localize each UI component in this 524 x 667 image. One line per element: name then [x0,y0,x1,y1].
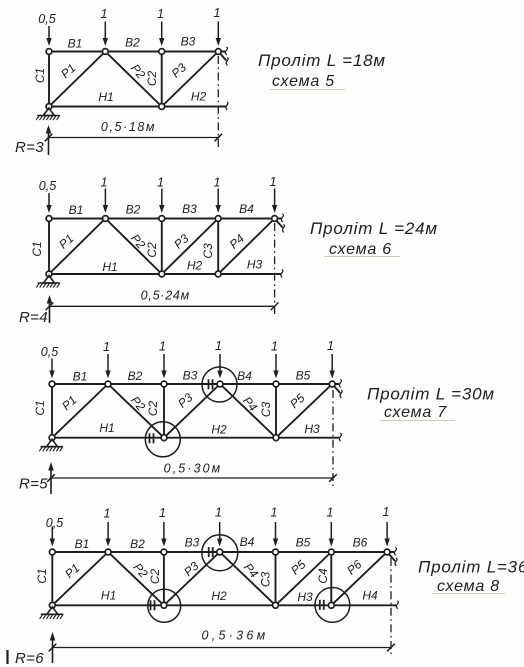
vertical member С4 truss 8 [330,552,332,605]
node truss 5 [215,49,221,55]
added-node circle truss 8 [315,588,350,623]
diagonal member Р4 truss 8 [220,552,276,605]
svg-text:С2: С2 [145,71,159,87]
double tick mark truss 8 [208,547,210,557]
vertical member С2 truss 5 [161,52,163,107]
load arrow at x=218.3 [217,22,219,41]
svg-text:Проліт L =30м: Проліт L =30м [367,385,495,404]
diagonal member Р2 truss 7 [108,384,164,438]
svg-text:В5: В5 [296,536,311,550]
svg-text:1: 1 [103,340,110,354]
svg-text:С1: С1 [33,400,47,415]
top chord line truss 5 [49,51,225,53]
bottom chord line truss 8 [52,604,396,606]
load arrow at x=219.7 [219,522,221,541]
svg-text:Н2: Н2 [211,423,227,437]
svg-text:Н2: Н2 [191,90,207,104]
svg-text:Проліт L =18м: Проліт L =18м [258,51,386,70]
symmetry axis line truss 7 [332,390,334,486]
vertical member С2 truss 7 [163,384,165,438]
load arrow at x=108 [107,354,109,373]
support A truss 5 [43,108,54,116]
svg-text:С3: С3 [259,402,273,418]
load arrow at x=387.1 [386,522,388,541]
diagonal stub at symmetry axis truss 8 [387,552,395,561]
svg-text:1: 1 [101,176,108,190]
vertical member С3 truss 6 [217,219,219,275]
diagonal member Р2 truss 6 [105,219,161,275]
svg-text:1: 1 [271,340,278,354]
top chord line truss 6 [49,218,281,220]
node truss 8 [328,549,334,555]
svg-text:Н1: Н1 [101,589,116,603]
node truss 8 [161,549,167,555]
vertical member С1 truss 7 [51,384,53,438]
symmetry axis line truss 6 [274,223,276,317]
double tick mark truss 8 [150,600,152,610]
svg-text:1: 1 [327,339,334,353]
svg-text:Н3: Н3 [304,422,320,436]
reaction arrow R truss 7 [50,467,52,494]
load arrow at x=161.7 [161,22,163,41]
svg-text:0,5·36м: 0,5·36м [201,629,268,643]
vertical member С2 truss 8 [163,552,165,605]
dimension line truss 5 [49,137,219,139]
load arrow at x=276 [275,354,277,373]
added-node circle truss 7 [202,367,237,402]
node truss 8 [161,602,167,608]
svg-text:схема 8: схема 8 [437,578,500,595]
node truss 6 [215,271,221,277]
svg-text:В6: В6 [353,536,368,550]
svg-text:1: 1 [270,175,277,189]
svg-text:схема 6: схема 6 [329,241,392,258]
svg-text:В3: В3 [181,35,196,49]
svg-text:С4: С4 [316,568,330,584]
added-node circle truss 8 [202,535,238,571]
svg-text:В2: В2 [130,537,145,551]
svg-text:1: 1 [159,340,166,354]
svg-text:С1: С1 [35,568,49,583]
svg-text:0,5·24м: 0,5·24м [141,289,190,303]
vertical member С1 truss 6 [48,219,50,275]
node truss 8 [273,602,279,608]
svg-text:1: 1 [215,339,222,353]
diagonal member Р2 truss 5 [105,52,161,107]
diagonal member Р5 truss 7 [276,384,332,438]
cut mark bottom-right truss 5 [225,102,229,110]
svg-text:0,5: 0,5 [46,516,63,530]
svg-text:1: 1 [101,7,108,21]
svg-text:0,5: 0,5 [39,179,56,193]
svg-text:В2: В2 [128,369,143,383]
support A truss 7 [47,439,58,447]
svg-text:В3: В3 [185,536,200,550]
node truss 6 [46,271,52,277]
symmetry axis line truss 5 [217,56,219,148]
node truss 7 [273,381,279,387]
top chord line truss 7 [52,383,339,385]
svg-text:R=4: R=4 [19,309,48,326]
svg-text:1: 1 [327,506,334,520]
diagonal member Р1 truss 7 [52,384,108,438]
svg-text:0,5: 0,5 [41,345,58,359]
load arrow at x=52.3 [51,527,53,541]
svg-text:С2: С2 [146,401,160,417]
load arrow at x=163.9 [163,522,165,541]
cut mark bottom-right truss 7 [338,433,342,441]
svg-text:В4: В4 [240,535,255,549]
load arrow at x=105.3 [104,22,106,41]
node truss 7 [273,435,279,441]
stray mark near R=6 [6,650,8,664]
double tick mark truss 8 [319,600,321,610]
diagonal member Р3 truss 6 [162,219,218,275]
node truss 8 [105,549,111,555]
svg-text:В1: В1 [75,537,90,551]
vertical member С2 truss 6 [161,219,163,275]
guideline under schema 8 [432,593,505,595]
node truss 7 [161,381,167,387]
svg-text:Н3: Н3 [297,590,313,604]
load arrow at x=49 [48,193,50,207]
node truss 6 [103,216,109,222]
node truss 8 [328,602,334,608]
diagonal member Р3 truss 7 [164,384,220,438]
diagonal member Р2 truss 8 [108,552,164,605]
double tick mark truss 7 [208,379,210,389]
support A truss 6 [44,276,55,284]
svg-text:1: 1 [383,505,390,519]
svg-text:1: 1 [159,506,166,520]
diagonal member Р6 truss 8 [331,552,387,605]
diagonal member Р4 truss 6 [218,219,274,275]
vertical member С1 truss 8 [51,552,53,605]
node truss 6 [272,216,278,222]
load arrow at x=52 [51,359,53,373]
load arrow at x=274.6 [274,189,276,208]
vertical member С1 truss 5 [48,52,50,107]
dimension line truss 8 [53,647,392,649]
cut mark top-right truss 6 [280,214,284,222]
svg-text:1: 1 [271,506,278,520]
svg-text:Н1: Н1 [102,260,117,274]
symmetry axis line truss 8 [390,558,392,656]
svg-text:схема 5: схема 5 [272,73,335,90]
load arrow at x=161.8 [161,189,163,208]
guideline under schema 7 [380,420,455,422]
load arrow at x=105.4 [104,189,106,208]
svg-text:Н1: Н1 [98,90,113,104]
bottom chord line truss 7 [52,437,339,439]
reaction arrow R truss 5 [48,130,50,155]
svg-text:С3: С3 [259,572,273,588]
svg-text:Н2: Н2 [211,589,227,603]
load arrow at x=49 [48,26,50,40]
svg-text:0,5·18м: 0,5·18м [101,120,156,134]
svg-text:В3: В3 [182,202,197,216]
cut mark bottom-right truss 8 [395,601,399,609]
added-node circle truss 7 [145,422,180,457]
node truss 8 [273,549,279,555]
diagonal member Р4 truss 7 [220,384,276,438]
load arrow at x=275.5 [275,522,277,541]
node truss 6 [159,216,165,222]
svg-text:Н2: Н2 [187,259,203,273]
svg-text:В2: В2 [125,36,140,50]
node truss 7 [329,381,335,387]
load arrow at x=332.2 [331,354,333,373]
load arrow at x=108.1 [107,522,109,541]
reaction arrow R truss 6 [49,300,51,323]
svg-text:R=6: R=6 [15,650,44,667]
diagonal stub at symmetry axis truss 7 [332,384,340,393]
svg-text:R=5: R=5 [19,476,48,493]
svg-text:В1: В1 [73,370,88,384]
node truss 7 [49,435,55,441]
svg-text:В4: В4 [239,202,254,216]
svg-text:1: 1 [215,506,222,520]
svg-text:Проліт L =24м: Проліт L =24м [310,219,438,238]
bottom chord line truss 6 [49,273,281,275]
load arrow at x=218.2 [217,189,219,208]
node truss 6 [159,271,165,277]
cut mark top-right truss 5 [224,47,228,55]
node truss 5 [102,49,108,55]
svg-text:В3: В3 [183,369,198,383]
svg-text:В5: В5 [296,369,311,383]
diagonal member Р1 truss 5 [49,52,105,107]
reaction arrow R truss 8 [52,637,54,663]
node truss 7 [217,381,223,387]
svg-text:0,5: 0,5 [38,12,55,26]
guideline under schema 5 [270,89,345,91]
svg-text:Н3: Н3 [247,258,263,272]
node truss 8 [384,549,390,555]
top chord line truss 8 [52,551,394,553]
svg-text:Н1: Н1 [99,421,114,435]
svg-text:схема 7: схема 7 [384,404,447,421]
diagonal stub at symmetry axis truss 6 [275,219,283,228]
svg-text:В4: В4 [237,369,252,383]
vertical member С3 truss 8 [275,552,277,605]
diagonal member Р5 truss 8 [276,552,332,605]
double tick mark truss 7 [149,433,151,443]
support A truss 8 [47,607,58,615]
svg-text:1: 1 [214,176,221,190]
cut mark bottom-right truss 6 [280,270,284,278]
node truss 6 [46,216,52,222]
svg-text:С1: С1 [30,241,44,256]
node truss 5 [159,104,165,110]
svg-text:С2: С2 [145,242,159,258]
bottom chord line truss 5 [49,106,226,108]
svg-text:1: 1 [157,176,164,190]
load arrow at x=164 [163,354,165,373]
guideline under schema 6 [324,256,400,258]
diagonal member Р3 truss 5 [162,52,219,107]
cut mark top-right truss 7 [338,380,342,388]
added-node circle truss 8 [148,589,181,622]
svg-text:1: 1 [214,6,221,20]
vertical member С3 truss 7 [275,384,277,438]
diagonal stub at symmetry axis truss 5 [218,52,226,61]
load arrow at x=220 [219,354,221,373]
svg-text:1: 1 [104,507,111,521]
cut mark top-right truss 8 [393,548,397,556]
svg-text:1: 1 [157,7,164,21]
svg-text:С3: С3 [201,243,215,259]
svg-text:С2: С2 [148,569,162,585]
diagonal member Р3 truss 8 [164,552,220,605]
node truss 7 [161,435,167,441]
svg-text:R=3: R=3 [15,139,44,156]
node truss 7 [105,381,111,387]
dimension line truss 6 [50,305,275,307]
dimension line truss 7 [51,477,333,479]
node truss 8 [49,549,55,555]
diagonal member Р1 truss 6 [49,219,105,275]
node truss 6 [215,216,221,222]
node truss 8 [49,602,55,608]
node truss 5 [46,104,52,110]
svg-text:С1: С1 [33,68,47,83]
svg-text:В1: В1 [68,37,83,51]
node truss 5 [159,49,165,55]
diagonal member Р1 truss 8 [52,552,108,605]
svg-text:Проліт L=36м: Проліт L=36м [418,558,524,577]
load arrow at x=331.3 [330,522,332,541]
svg-text:0,5·30м: 0,5·30м [164,462,223,476]
svg-text:В1: В1 [69,203,84,217]
svg-text:В2: В2 [126,203,141,217]
svg-text:Н4: Н4 [362,589,378,603]
node truss 8 [217,549,223,555]
node truss 5 [46,49,52,55]
node truss 7 [49,381,55,387]
